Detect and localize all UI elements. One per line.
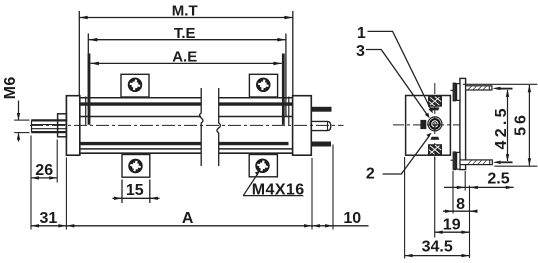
lower washer xyxy=(430,137,439,140)
svg-text:A: A xyxy=(182,210,194,227)
svg-text:A.E: A.E xyxy=(172,49,197,66)
leader 1 xyxy=(368,31,433,113)
mounting tab top-right xyxy=(249,74,277,97)
screw top-right xyxy=(256,78,270,92)
right end cap xyxy=(293,96,312,156)
screw bottom-right xyxy=(255,159,269,173)
label M4X16 with leader xyxy=(243,171,303,196)
index tab left of circle xyxy=(421,120,426,128)
break line left xyxy=(199,88,203,166)
dimension 8 xyxy=(443,171,478,258)
dimension 42.5 xyxy=(497,89,513,163)
body tube lines right segment xyxy=(219,98,293,153)
svg-text:1: 1 xyxy=(357,25,366,42)
side view vertical centerline xyxy=(434,83,436,161)
dimension 19 xyxy=(435,157,470,238)
dimension 31 xyxy=(31,158,66,230)
upper washer xyxy=(430,107,439,110)
dimension A.E xyxy=(86,54,289,125)
svg-text:2.5: 2.5 xyxy=(487,171,509,188)
svg-text:3: 3 xyxy=(356,43,365,60)
mounting tab bottom-left xyxy=(122,155,150,178)
terminal lower xyxy=(311,142,330,146)
dimension M6 xyxy=(14,101,29,142)
svg-text:M6: M6 xyxy=(2,76,19,99)
svg-text:31: 31 xyxy=(40,210,58,227)
bracket plate xyxy=(460,78,466,169)
side view horizontal centerline xyxy=(393,124,466,126)
dimension A xyxy=(66,158,312,230)
svg-text:10: 10 xyxy=(343,210,361,227)
bottom bolt xyxy=(450,152,492,170)
dimension T.E xyxy=(88,34,286,118)
left end cap xyxy=(66,96,79,156)
mounting tab bottom-right xyxy=(249,155,277,177)
leader 3 xyxy=(366,50,430,119)
leader 2 xyxy=(383,133,432,174)
svg-text:56: 56 xyxy=(512,112,529,136)
threaded rod M6 xyxy=(31,120,66,133)
dimension 15 xyxy=(113,180,160,204)
side view body square xyxy=(406,96,451,156)
terminal upper xyxy=(311,107,331,111)
svg-text:2: 2 xyxy=(366,165,375,182)
dimension 34.5 xyxy=(405,157,470,259)
mounting tab top-left xyxy=(121,74,149,97)
upper hatched block xyxy=(429,96,442,106)
lower hatched block xyxy=(429,145,442,155)
svg-text:26: 26 xyxy=(35,162,53,179)
dimension 2.5 xyxy=(444,161,514,191)
dimension 56 xyxy=(463,84,537,166)
body tube lines left segment xyxy=(80,98,201,153)
svg-text:15: 15 xyxy=(126,182,144,199)
centerline front view xyxy=(30,124,344,126)
svg-text:8: 8 xyxy=(456,196,465,213)
svg-text:T.E: T.E xyxy=(174,25,196,42)
shaft circles side view xyxy=(428,117,442,131)
svg-text:M.T: M.T xyxy=(172,2,198,19)
dimension M.T xyxy=(79,11,292,96)
dimension 26 xyxy=(31,136,57,230)
svg-text:34.5: 34.5 xyxy=(422,239,453,256)
collar xyxy=(58,114,67,137)
screw top-left xyxy=(128,78,142,92)
svg-text:M4X16: M4X16 xyxy=(252,181,305,198)
svg-text:42.5: 42.5 xyxy=(493,105,510,149)
dimension 10 xyxy=(312,145,369,230)
screw bottom-left xyxy=(128,159,142,173)
stub shaft xyxy=(311,121,331,130)
top bolt xyxy=(450,83,500,101)
break line right xyxy=(217,88,221,166)
svg-text:19: 19 xyxy=(443,217,461,234)
